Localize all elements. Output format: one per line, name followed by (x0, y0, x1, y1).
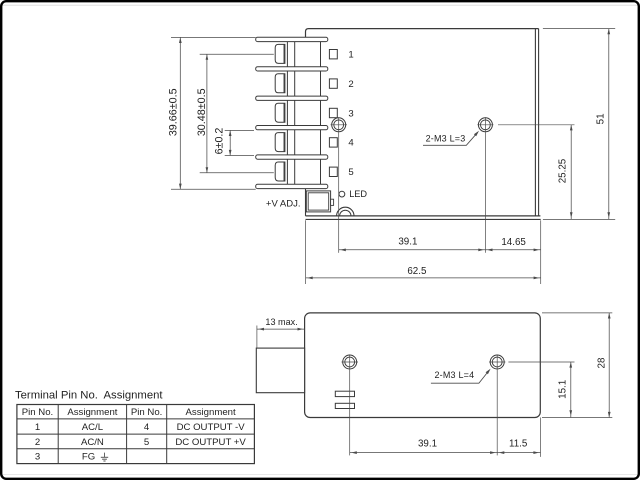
svg-text:2: 2 (35, 437, 40, 448)
terminal screw 2 (275, 74, 285, 93)
svg-text:2-M3 L=3: 2-M3 L=3 (426, 133, 466, 143)
svg-text:39.66±0.5: 39.66±0.5 (167, 88, 179, 136)
dimension 13 max line and arrows (257, 328, 305, 330)
dimension 25.25 extension and line (498, 124, 575, 126)
faint inner rule bottom (3, 474, 637, 476)
svg-text:1: 1 (35, 422, 40, 433)
svg-text:14.65: 14.65 (501, 237, 526, 248)
svg-text:15.1: 15.1 (558, 380, 569, 399)
dimension 51 line and arrows (608, 29, 610, 220)
svg-text:2-M3 L=4: 2-M3 L=4 (434, 370, 474, 380)
right mounting hole top view (478, 118, 492, 132)
terminal block right edge vertical (320, 37, 322, 188)
svg-text:6±0.2: 6±0.2 (214, 128, 226, 155)
svg-text:11.5: 11.5 (509, 438, 528, 449)
svg-text:5: 5 (348, 167, 353, 178)
svg-text:3: 3 (348, 108, 353, 119)
dimension 62.5 extension line left (305, 220, 307, 284)
svg-text:4: 4 (348, 138, 354, 149)
terminal barrier bar 5 (256, 155, 328, 159)
top view: case left edge lower segment (305, 189, 307, 216)
table frame (17, 405, 255, 464)
terminal block inner vertical line A (286, 37, 288, 188)
svg-text:Assignment: Assignment (186, 407, 236, 418)
terminal block inner vertical line B (294, 37, 296, 188)
dimension 14.65 line and arrows (485, 249, 540, 251)
dimension 39.1 bottom line and arrows (350, 452, 498, 454)
terminal screw 5 (275, 162, 285, 181)
pin 1 terminal square (329, 50, 337, 59)
svg-text:30.48±0.5: 30.48±0.5 (196, 88, 208, 136)
dimension 39.66 line and arrows (179, 37, 181, 189)
pin 3 terminal square (329, 108, 337, 117)
svg-text:DC OUTPUT +V: DC OUTPUT +V (175, 437, 246, 448)
svg-text:FG: FG (82, 452, 95, 463)
svg-text:4: 4 (144, 422, 150, 433)
svg-text:28: 28 (596, 357, 607, 368)
svg-text:AC/N: AC/N (81, 437, 104, 448)
dimension 62.5 line and arrows (306, 277, 541, 279)
svg-text:2: 2 (348, 79, 353, 90)
terminal barrier bar 3 (256, 96, 328, 100)
svg-text:Pin No.: Pin No. (22, 407, 53, 418)
svg-text:62.5: 62.5 (407, 266, 427, 277)
terminal screw 4 (275, 133, 285, 152)
side view: terminal connector block (256, 348, 304, 393)
LED indicator circle (339, 191, 345, 197)
potentiometer side tab (331, 199, 334, 205)
left mounting hole top view (332, 118, 346, 132)
ground symbol in FG cell (104, 453, 106, 458)
dimension 30.48 extension lines (200, 53, 274, 55)
terminal screw 1 (275, 44, 285, 63)
svg-text:+V ADJ.: +V ADJ. (266, 199, 301, 210)
dimension 51 extension lines (543, 28, 615, 30)
svg-text:3: 3 (35, 452, 40, 463)
side view case edge extension down (540, 418, 542, 457)
svg-text:5: 5 (144, 437, 149, 448)
dimension 15.1 line and arrows (570, 362, 572, 418)
side view: vent slot 2 (335, 403, 354, 408)
dimension 13 max extension line (256, 326, 258, 348)
side view left mounting hole (343, 355, 357, 369)
side view right mounting hole (490, 355, 504, 369)
dimension 30.48 line and arrows (206, 54, 208, 173)
faint inner rule top (3, 4, 637, 6)
svg-text:Terminal Pin No. Assignment: Terminal Pin No. Assignment (15, 390, 163, 402)
svg-text:1: 1 (348, 50, 353, 61)
svg-text:Pin No.: Pin No. (131, 407, 162, 418)
dimension 15.1 extension line (508, 361, 574, 363)
pin 4 terminal square (329, 138, 337, 147)
svg-text:39.1: 39.1 (418, 438, 437, 449)
top view: case right wall outer line (538, 29, 540, 216)
dimension 28 line and arrows (608, 313, 610, 418)
svg-text:39.1: 39.1 (398, 236, 417, 247)
pin 2 terminal square (329, 79, 337, 88)
top view: case bottom edge (306, 215, 541, 217)
top view: case bottom flange edge (306, 218, 541, 220)
top view: case top edge (306, 29, 539, 38)
pin 5 terminal square (329, 167, 337, 176)
svg-text:AC/L: AC/L (82, 422, 104, 433)
svg-text:51: 51 (595, 113, 606, 124)
dimension 39.66 extension lines (171, 36, 256, 38)
svg-text:13 max.: 13 max. (265, 317, 297, 327)
dimension 39.1 top line and arrows (339, 249, 486, 251)
bottom edge grommet bump (337, 207, 354, 216)
svg-text:LED: LED (349, 189, 367, 199)
svg-text:25.25: 25.25 (558, 158, 569, 183)
terminal barrier bar 6 (256, 184, 328, 188)
side view: vent slot 1 (335, 391, 354, 396)
top view: case right wall inner line (534, 29, 536, 216)
dimension 6 extension lines (225, 129, 254, 131)
terminal barrier bar 1 (256, 37, 328, 41)
dimension 6 line and arrows (229, 130, 231, 155)
hole centerline extensions down (338, 132, 340, 252)
dimension 11.5 line and arrows (497, 452, 540, 454)
terminal barrier bar 2 (256, 67, 328, 71)
svg-text:Assignment: Assignment (67, 407, 117, 418)
dimension 14.65 extension line (540, 220, 542, 284)
dimension 28 extension lines (542, 312, 612, 314)
svg-text:DC OUTPUT -V: DC OUTPUT -V (177, 422, 246, 433)
side view: case outline (305, 313, 541, 418)
terminal screw 3 (275, 103, 285, 122)
side view hole centerlines down (349, 370, 351, 456)
terminal barrier bar 4 (256, 126, 328, 130)
potentiometer +V ADJ body (306, 191, 330, 212)
